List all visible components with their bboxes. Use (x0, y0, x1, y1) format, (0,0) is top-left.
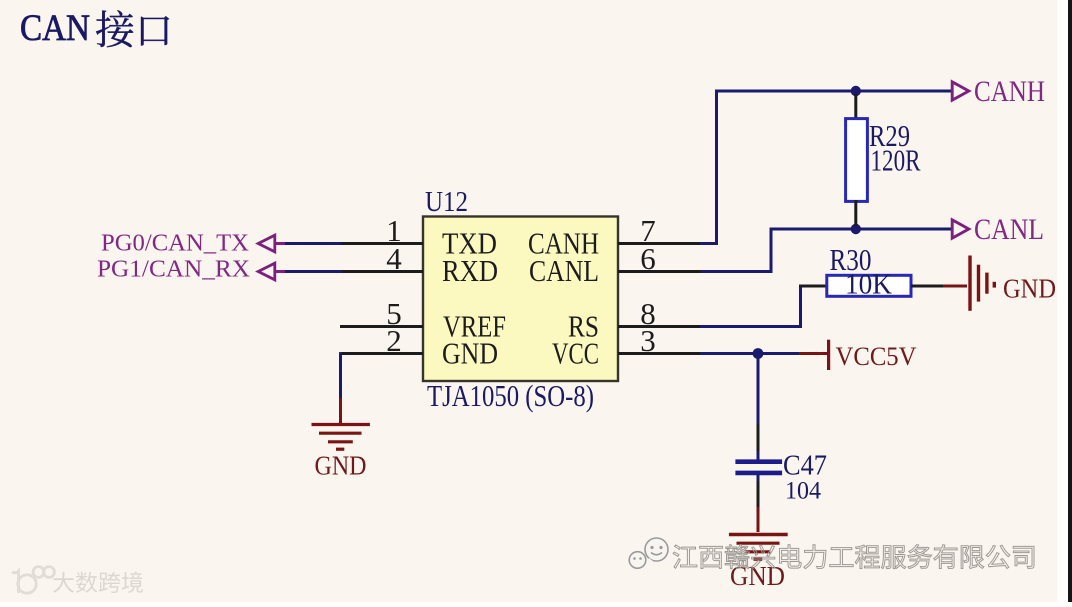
wire pin2 elbow down (339, 352, 342, 399)
wire CANL horizontal (770, 228, 952, 231)
svg-text:CAN: CAN (20, 8, 90, 49)
junction CANH / R29 (851, 86, 861, 96)
wire R30 riser (799, 285, 802, 329)
svg-text:GND: GND (442, 336, 498, 371)
port PG1/CAN_RX (97, 257, 286, 283)
sheet border line (1068, 0, 1072, 602)
svg-text:VCC5V: VCC5V (836, 342, 917, 371)
ground GND bottom (729, 507, 788, 591)
ground GND right (rotated) (943, 256, 1056, 311)
watermark text 江西赣兴电力工程服务有限公司 (673, 545, 1034, 569)
watermark logo 100 (12, 567, 54, 594)
port CANL (952, 213, 1044, 246)
wire junction down to C47 (757, 356, 760, 425)
ground GND left (312, 398, 370, 481)
pin 6 CANL stub (618, 241, 702, 276)
watermark logo bubbles (629, 538, 668, 568)
pin 7 CANH stub (618, 213, 716, 248)
wire CANH horizontal (715, 90, 951, 93)
resistor R30 10K (799, 242, 944, 301)
svg-text:6: 6 (640, 241, 656, 276)
wire pin7 to riser (700, 242, 718, 245)
wire pin8 to riser (700, 325, 802, 328)
pin 5 VREF stub (340, 296, 423, 331)
svg-text:GND: GND (1003, 274, 1056, 304)
resistor R29 120R (846, 94, 921, 226)
port CANH (952, 75, 1045, 108)
pin 3 VCC stub (618, 323, 701, 358)
junction VCC / C47 (753, 348, 764, 359)
svg-text:RXD: RXD (442, 253, 498, 288)
svg-text:PG0/CAN_TX: PG0/CAN_TX (101, 231, 249, 257)
wire junction to power (758, 352, 800, 355)
svg-text:4: 4 (386, 241, 402, 276)
wire pin1 to port (285, 242, 341, 245)
svg-text:10K: 10K (845, 270, 892, 301)
svg-text:CANL: CANL (974, 213, 1044, 246)
svg-text:3: 3 (640, 323, 656, 358)
svg-text:CANL: CANL (529, 253, 599, 288)
wire pin6 to riser (701, 270, 773, 273)
IC U12 TJA1050 body (423, 217, 618, 382)
svg-text:VCC: VCC (552, 336, 599, 371)
svg-text:GND: GND (315, 451, 367, 481)
svg-text:U12: U12 (425, 187, 468, 218)
port PG0/CAN_TX (101, 231, 286, 257)
svg-text:CANH: CANH (974, 75, 1045, 108)
junction CANL / R29 (851, 224, 861, 234)
pin 2 GND stub (341, 323, 423, 358)
wire CANL riser (770, 229, 773, 273)
svg-text:2: 2 (386, 323, 402, 358)
sheet edge strip (1057, 0, 1068, 602)
svg-text:104: 104 (785, 478, 821, 505)
pin 1 TXD stub (340, 213, 423, 248)
watermark text 大数跨境 (53, 572, 143, 593)
power VCC5V (799, 340, 917, 371)
wire CANH riser (715, 91, 718, 245)
pin 4 RXD stub (341, 241, 423, 276)
svg-text:120R: 120R (871, 143, 921, 178)
wire pin3 to junction (700, 352, 758, 355)
wire pin4 to port (285, 270, 342, 273)
title CAN接口 (20, 8, 169, 49)
pin 8 RS stub (618, 296, 701, 331)
svg-text:PG1/CAN_RX: PG1/CAN_RX (97, 257, 250, 283)
capacitor C47 104 (735, 424, 827, 508)
svg-text:TJA1050 (SO-8): TJA1050 (SO-8) (427, 378, 594, 413)
